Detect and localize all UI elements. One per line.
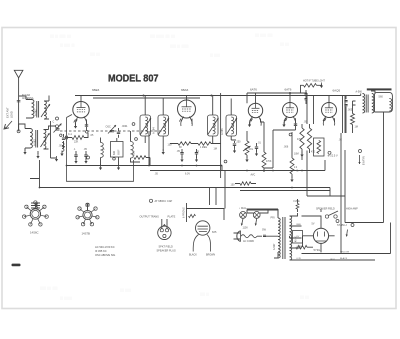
svg-text:LEAD: LEAD	[9, 111, 13, 118]
svg-text:A-566: A-566	[356, 91, 363, 94]
tube socket diagram X1 14S6C	[30, 209, 40, 219]
wire right risers	[302, 151, 330, 197]
pin stub V5	[328, 96, 330, 103]
capacitor C5 cluster	[84, 155, 87, 156]
svg-text:600: 600	[113, 150, 116, 155]
coil L6	[131, 142, 134, 159]
svg-text:470K: 470K	[297, 139, 303, 141]
coil choke small	[189, 214, 196, 217]
svg-text:150: 150	[231, 184, 236, 187]
svg-text:AC CORD: AC CORD	[243, 240, 254, 243]
grid resistor R1	[72, 136, 84, 140]
svg-text:.005: .005	[348, 109, 353, 112]
fuse F1	[296, 204, 299, 210]
transformer T6 secondary	[290, 216, 292, 260]
wire osc top	[19, 124, 56, 131]
terminal C gang B	[56, 125, 59, 128]
terminal circled E	[135, 138, 138, 141]
svg-text:6 PRONG: 6 PRONG	[183, 207, 186, 218]
electrolytic C14 box	[293, 231, 303, 244]
resistor R12 osc feed	[134, 156, 146, 160]
component value labels	[53, 109, 358, 262]
wire ant coil top	[19, 96, 49, 102]
tube V2 6BA6 IF amplifier	[178, 100, 196, 118]
svg-text:.0001: .0001	[122, 125, 129, 128]
svg-text:llll llll: llll llll	[300, 295, 309, 300]
capacitor C10 bias box	[314, 138, 325, 156]
tube socket diagram X2 14S7B	[83, 210, 92, 219]
shield box tuning gang	[67, 118, 134, 182]
core T2	[36, 130, 38, 148]
cathode V3	[250, 119, 253, 122]
svg-text:6BE6: 6BE6	[92, 88, 100, 92]
svg-text:SPKT FIELD: SPKT FIELD	[159, 246, 173, 249]
inline resistor B- bus	[240, 182, 251, 186]
svg-text:HIGH AMP: HIGH AMP	[346, 208, 358, 211]
wire dial lamps	[247, 209, 279, 216]
svg-text:6AT6: 6AT6	[285, 88, 292, 92]
svg-text:llll llll: llll llll	[280, 42, 289, 47]
ground L5	[100, 165, 102, 168]
wire drops to plug area	[210, 171, 226, 209]
coil L5 osc padder	[101, 143, 104, 158]
grid coupling C9	[295, 118, 297, 123]
capacitor trimmer pad	[62, 138, 65, 139]
IF transformer T3 secondary	[158, 115, 169, 136]
wire long B- bus	[40, 187, 331, 189]
cathode V2	[179, 119, 182, 122]
speaker voice coil	[389, 99, 391, 112]
wire cord to transformer	[257, 235, 274, 237]
svg-text:⊕-22.5 V: ⊕-22.5 V	[328, 155, 338, 158]
wire R4	[246, 137, 248, 158]
svg-text:40-40: 40-40	[296, 235, 298, 242]
svg-text:A-562: A-562	[35, 109, 38, 116]
terminal C gang A	[56, 117, 59, 120]
terminal circled F	[224, 160, 227, 163]
svg-text:lll llllll lll: lll llllll lll	[60, 43, 75, 48]
wire rectifier plate feed	[302, 216, 322, 228]
svg-text:HOT IF TUBE LGHT: HOT IF TUBE LGHT	[303, 79, 325, 82]
svg-text:llll lll llllll llll: llll lll llllll llll	[50, 34, 71, 39]
trimmer arrow T2	[41, 133, 50, 147]
svg-text:14S7B: 14S7B	[82, 232, 91, 236]
faint print bleed-through (decorative)	[40, 33, 309, 301]
svg-text:.006: .006	[284, 146, 289, 149]
transformer T5 output primary	[363, 94, 365, 114]
wire C13	[343, 96, 356, 134]
svg-text:14S6C: 14S6C	[30, 231, 39, 235]
wire B+ top bus	[75, 96, 345, 134]
wire top bus 2	[93, 97, 200, 99]
capacitor C15 series	[66, 136, 68, 139]
wire grid R1	[67, 133, 89, 138]
pin stub V1 plate	[80, 96, 82, 102]
svg-text:6BA6: 6BA6	[181, 88, 189, 92]
svg-text:AT 680KC CAP: AT 680KC CAP	[155, 199, 173, 203]
wire bottom right rails	[302, 223, 391, 261]
svg-text:lll llllll: lll llllll	[210, 53, 220, 58]
tube V4 6AT6 first audio	[283, 103, 298, 118]
svg-text:BLACK: BLACK	[340, 257, 348, 260]
svg-text:C-1: C-1	[68, 133, 73, 136]
wires T6 secondary taps	[290, 213, 302, 260]
svg-text:6X5: 6X5	[212, 231, 217, 234]
wire R5	[263, 122, 265, 172]
svg-text:EXT ANT: EXT ANT	[6, 107, 10, 118]
resistor R6	[290, 158, 294, 174]
resistor R10 tone	[351, 114, 355, 125]
svg-text:6AQ5: 6AQ5	[333, 89, 341, 93]
svg-text:6.3V: 6.3V	[185, 173, 190, 176]
svg-text:100: 100	[168, 144, 173, 147]
svg-text:OSC: OSC	[133, 151, 136, 156]
wire plug box	[187, 203, 225, 222]
tube V3 6AT6 detector	[248, 103, 262, 117]
capacitor C6	[180, 153, 183, 154]
wire AVC bus	[67, 166, 223, 171]
svg-text:RED: RED	[297, 224, 302, 226]
wire C9 to volume	[273, 129, 296, 131]
svg-text:5Y3G: 5Y3G	[314, 248, 321, 252]
wires T4	[213, 96, 232, 144]
label C1A	[60, 134, 62, 136]
AC plug	[234, 231, 241, 242]
transformer T5 secondary	[372, 94, 374, 114]
ground trimmer	[63, 143, 65, 146]
wires T3	[145, 96, 163, 144]
svg-text:FUSE: FUSE	[294, 201, 301, 203]
wires tone network	[343, 96, 353, 134]
grid stub V5	[334, 118, 336, 122]
arrow to lead-in	[5, 121, 12, 129]
wire bus mid2	[240, 190, 330, 192]
wire gang left	[51, 121, 57, 158]
pin stub V2	[186, 96, 188, 101]
wire junction dots	[211, 95, 213, 97]
tube V6 5Y3G rectifier	[313, 228, 328, 243]
capacitor C8	[255, 147, 258, 148]
IF transformer T4 primary	[208, 115, 219, 136]
wires rectifier	[303, 236, 335, 253]
svg-text:llllll llll lllll: llllll llll lllll	[40, 286, 58, 291]
svg-text:1M: 1M	[355, 126, 358, 129]
ground R9	[317, 84, 322, 85]
resistor R11 filter	[296, 245, 307, 249]
IF transformer T3 primary	[140, 115, 151, 136]
trimmer arrows T3	[140, 118, 151, 135]
svg-text:A-567: A-567	[273, 243, 276, 250]
svg-text:5V: 5V	[312, 223, 315, 226]
resistor R7 grid	[300, 128, 304, 149]
svg-text:lllll llll: lllll llll	[90, 52, 100, 57]
svg-text:YELLOW: YELLOW	[340, 251, 350, 253]
svg-text:BROWN: BROWN	[206, 253, 215, 256]
wire left riser	[30, 160, 40, 188]
ground osc secondary	[37, 151, 39, 154]
dial lamp I1	[240, 212, 247, 219]
variable capacitor C1B	[108, 125, 116, 134]
grid stub V2	[191, 119, 193, 124]
capacitor C4 cluster	[74, 155, 77, 156]
resistor R3 under V2	[198, 142, 211, 145]
svg-text:BLK: BLK	[331, 259, 336, 262]
transformer T6 primary	[278, 218, 280, 258]
svg-text:470: 470	[311, 151, 316, 154]
note minus arrow	[359, 150, 362, 153]
wire AVC riser	[340, 133, 342, 254]
resistor R5 plate load	[262, 152, 266, 168]
resistor R2 under V2	[178, 142, 191, 145]
coil L2 antenna secondary	[44, 101, 46, 119]
svg-text:1 MEG: 1 MEG	[200, 147, 207, 149]
speaker plug P1	[158, 226, 171, 239]
capacitor C13 tone	[344, 101, 347, 102]
svg-text:115V: 115V	[243, 227, 249, 230]
svg-text:lll llllllll: lll llllllll	[60, 296, 72, 301]
grid leads V1	[86, 119, 88, 124]
svg-text:250: 250	[237, 141, 242, 144]
svg-text:SPEAKER PLUG: SPEAKER PLUG	[157, 250, 176, 253]
svg-text:C: C	[53, 121, 55, 124]
svg-text:IF 455 KC: IF 455 KC	[95, 249, 107, 253]
cord squiggle	[241, 235, 257, 238]
tube V1 6BE6 converter	[73, 102, 89, 118]
svg-text:BLACK: BLACK	[189, 253, 197, 256]
resistor R9 dial light dropping	[304, 84, 317, 88]
trimmer arrows T4	[208, 118, 219, 135]
svg-text:lllll llllllll llll llll: lllll llllllll llll llll	[150, 34, 175, 39]
ground osc primary	[24, 148, 26, 151]
svg-text:MMF: MMF	[118, 149, 121, 155]
wire field circuit	[307, 150, 384, 223]
coil L4 osc secondary	[44, 130, 46, 149]
wire bus drops	[149, 93, 273, 178]
variable capacitor C1A	[54, 124, 62, 133]
arrows dial lamps	[242, 219, 244, 226]
svg-text:10M: 10M	[294, 153, 299, 156]
terminal box a	[87, 156, 90, 159]
page mark	[12, 264, 21, 267]
capacitor C3 padder box	[111, 142, 124, 158]
resistor R8 bias	[307, 128, 311, 149]
tube V5 6AQ5 output	[322, 103, 337, 118]
socket X1 top coil	[35, 203, 37, 209]
svg-text:22K: 22K	[74, 141, 79, 144]
svg-text:OUTPUT TRANS: OUTPUT TRANS	[140, 215, 160, 218]
svg-text:6AT6: 6AT6	[250, 88, 257, 92]
svg-text:A-563: A-563	[34, 139, 37, 146]
dial lamp I2	[253, 212, 260, 219]
svg-text:SPEAKER FIELD: SPEAKER FIELD	[316, 208, 335, 211]
plug legs	[193, 235, 198, 252]
wires into plug	[162, 219, 167, 229]
svg-text:llllll lll lllllll: llllll lll lllllll	[170, 44, 189, 49]
wire R9 left	[301, 85, 304, 93]
wires T6 primary	[247, 210, 278, 258]
svg-text:6.3V: 6.3V	[297, 258, 302, 260]
svg-text:1M: 1M	[214, 148, 217, 151]
pin stub V3	[255, 93, 257, 103]
junction dots bus	[39, 165, 303, 189]
speaker frame	[375, 92, 393, 112]
capacitor C2	[117, 132, 120, 133]
capacitor C7	[195, 153, 198, 154]
coil L3 osc primary	[30, 129, 32, 148]
diode load parts	[233, 144, 236, 145]
wires mixer	[101, 131, 141, 162]
coil L7 wave trap	[62, 143, 64, 152]
capacitors C11 C12 screen	[305, 94, 308, 95]
IF transformer T4 secondary	[226, 115, 237, 136]
transformer T6 core	[283, 217, 285, 259]
coil L1 antenna primary	[32, 100, 34, 118]
svg-text:MODEL 807: MODEL 807	[108, 74, 159, 85]
svg-text:PLATE: PLATE	[168, 215, 176, 218]
svg-text:ST-450-J: ST-450-J	[337, 224, 348, 227]
svg-text:A-565: A-565	[221, 128, 224, 135]
wire V2 bottom	[170, 143, 221, 145]
switch S1 on-off	[325, 215, 328, 218]
svg-text:VOL: VOL	[249, 149, 254, 151]
arrow switch	[347, 230, 348, 237]
svg-text:lllll lll: lllll lll	[200, 292, 209, 297]
note 680kc cap	[149, 199, 152, 202]
svg-text:560: 560	[379, 94, 384, 98]
svg-text:470K: 470K	[266, 161, 272, 163]
wire speaker field	[383, 112, 385, 223]
svg-text:AVC: AVC	[251, 174, 256, 177]
wire plate V5 to T5	[345, 91, 375, 96]
cathode V4	[284, 118, 287, 121]
cathode V5	[323, 118, 326, 121]
pin stub V4	[289, 93, 291, 103]
ground coil L-IF	[162, 149, 164, 152]
svg-text:PRI: PRI	[271, 217, 275, 220]
svg-text:llll llllll lllll: llll llllll lllll	[255, 33, 273, 38]
wire R6	[291, 132, 293, 178]
speaker magnet bar	[367, 88, 392, 90]
core T5	[366, 95, 368, 113]
grid stub V3	[261, 119, 265, 123]
svg-text:llll llllll: llll llllll	[120, 288, 131, 293]
svg-text:A-564: A-564	[153, 127, 156, 134]
svg-text:♀ DIAL: ♀ DIAL	[239, 207, 247, 210]
wire screen drops	[307, 93, 314, 124]
male plug P2	[196, 221, 210, 235]
svg-text:B 6AT6V: B 6AT6V	[363, 156, 366, 165]
wire B bus mid	[150, 160, 325, 171]
ground C3	[118, 165, 120, 168]
svg-text:AC 540-1720 KC: AC 540-1720 KC	[95, 245, 115, 249]
antenna	[14, 70, 23, 78]
socket X2 top stub	[87, 204, 89, 210]
terminal right A	[336, 220, 339, 223]
cathode symbols V1	[74, 119, 78, 122]
dashed gang line	[60, 130, 165, 132]
wire top bus 3	[247, 93, 307, 103]
resistor R4 volume	[245, 141, 249, 155]
wires R7 R8	[302, 124, 310, 153]
core T1	[37, 101, 39, 118]
svg-text:OSC ABOVE SIG: OSC ABOVE SIG	[95, 253, 115, 257]
terminal ANT	[17, 130, 20, 133]
svg-text:OSC: OSC	[106, 126, 111, 129]
trimmer arrow T1	[41, 104, 50, 117]
